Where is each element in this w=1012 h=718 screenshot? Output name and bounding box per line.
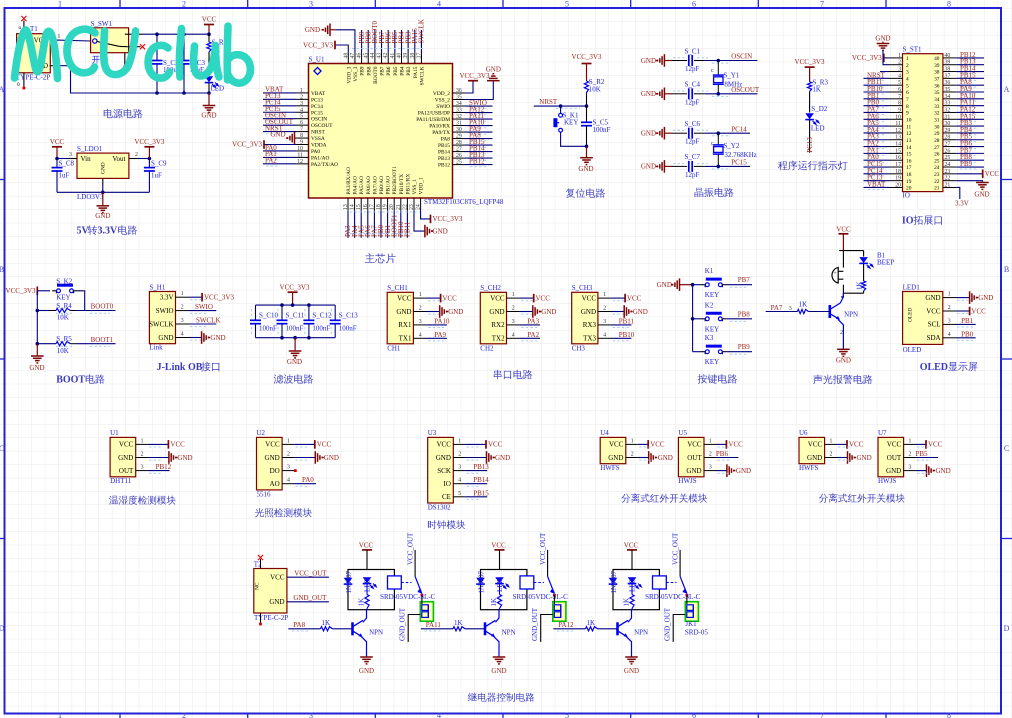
svg-text:NC: NC [255, 582, 261, 590]
svg-text:KEY: KEY [56, 293, 70, 301]
svg-text:VCC: VCC [442, 294, 457, 302]
svg-text:VCC: VCC [317, 441, 332, 449]
filter bottom rail [256, 337, 336, 339]
op-amp U1 main MCU body STM32F103C8T6 [309, 56, 504, 206]
LED of relay PA11 [495, 577, 509, 592]
svg-text:20: 20 [895, 182, 901, 188]
svg-text:GND: GND [641, 163, 656, 171]
svg-text:22: 22 [934, 179, 940, 185]
wire switch to connector PA12 [686, 595, 688, 604]
svg-text:1K: 1K [812, 86, 821, 94]
title 晶振电路 [695, 188, 734, 198]
svg-text:PB7: PB7 [738, 276, 751, 284]
S_CH1 pin stubs [413, 292, 444, 341]
svg-text:48: 48 [343, 53, 349, 59]
svg-text:PA7/AO: PA7/AO [372, 176, 378, 194]
connector U4 HWFS module [600, 429, 626, 472]
svg-text:25: 25 [456, 160, 462, 166]
svg-text:1: 1 [830, 438, 833, 444]
svg-text:A: A [1004, 85, 1010, 94]
key K3 [693, 334, 727, 366]
U1 left pin names [311, 91, 338, 168]
svg-text:J-Link OB: J-Link OB [157, 362, 203, 373]
svg-text:GND: GND [836, 357, 851, 365]
svg-text:26: 26 [945, 148, 951, 154]
svg-text:U3: U3 [428, 429, 437, 437]
wire S_C6 to PC14 [705, 125, 750, 135]
svg-text:KEY: KEY [705, 325, 719, 333]
svg-text:1K: 1K [587, 619, 596, 627]
resistor S_R5 10K [56, 335, 76, 355]
svg-text:NPN: NPN [844, 311, 858, 319]
power port VCC [202, 16, 217, 35]
svg-text:29: 29 [934, 131, 940, 137]
svg-text:PB1: PB1 [961, 317, 974, 325]
svg-text:30: 30 [934, 124, 940, 130]
power port VCC_3V3 of indicator [795, 58, 825, 82]
power port VCC of alarm [836, 226, 851, 251]
svg-text:IO: IO [902, 216, 914, 227]
net label PA9 at S_CH1 pin4 [427, 331, 447, 339]
svg-text:Link: Link [149, 344, 163, 352]
switch unconnected throw [129, 44, 146, 49]
net label PB5 at U7 [916, 450, 939, 460]
power port VCC at U4 [638, 440, 665, 449]
svg-text:OUT: OUT [887, 454, 902, 462]
ground GND of S_C6 [641, 127, 672, 140]
svg-text:OLED: OLED [908, 308, 914, 322]
svg-text:PB13: PB13 [438, 156, 450, 162]
svg-text:17: 17 [369, 204, 375, 210]
wire emitter to ground PA11 [493, 636, 499, 657]
svg-text:24: 24 [945, 162, 951, 168]
svg-text:40: 40 [945, 53, 951, 59]
ground GND of alarm [836, 349, 851, 364]
svg-text:SWCLK: SWCLK [196, 317, 221, 325]
svg-text:14: 14 [350, 204, 356, 210]
svg-text:S_K2: S_K2 [56, 277, 72, 285]
svg-text:HWFS: HWFS [799, 464, 819, 472]
relay enclosure PA12 [613, 570, 659, 610]
svg-text:22: 22 [945, 176, 951, 182]
svg-text:19: 19 [906, 179, 912, 185]
svg-text:35: 35 [945, 87, 951, 93]
svg-text:PB12: PB12 [156, 463, 172, 471]
wire S_C7 to PC15 [705, 159, 750, 169]
connector LED1 OLED display [903, 283, 943, 354]
svg-text:3: 3 [287, 465, 290, 471]
svg-text:GND: GND [641, 90, 656, 98]
net label PB1 at OLED pin3 [956, 317, 976, 325]
svg-text:SCK: SCK [437, 467, 451, 475]
title 主芯片 [365, 253, 396, 263]
power port VCC_3V3 of LDO [134, 138, 164, 159]
svg-text:SDA: SDA [927, 334, 941, 342]
svg-text:VCC: VCC [202, 16, 217, 24]
svg-text:12pF: 12pF [685, 171, 700, 179]
relay switch PA8 [401, 532, 423, 597]
capacitor S_C8 1uF [52, 159, 75, 193]
svg-text:S_C1: S_C1 [685, 47, 701, 55]
junction crystal Y2 top [717, 131, 721, 135]
svg-text:16: 16 [895, 155, 901, 161]
title 复位电路 [566, 188, 605, 198]
transistor NPN of relay PA11 [485, 620, 516, 637]
relay output connector PA8 [420, 602, 433, 622]
svg-text:5: 5 [565, 0, 569, 9]
svg-text:13: 13 [906, 138, 912, 144]
svg-text:27: 27 [934, 145, 940, 151]
svg-text:39: 39 [403, 53, 409, 59]
svg-text:4: 4 [287, 478, 290, 484]
svg-text:15: 15 [356, 204, 362, 210]
svg-text:GND: GND [736, 467, 751, 475]
svg-text:VDDA: VDDA [311, 143, 327, 149]
svg-text:S_CH2: S_CH2 [480, 284, 501, 292]
U1 left pin stubs and numbers [296, 88, 309, 165]
power port VCC of relay PA11 [491, 542, 506, 570]
wire emitter to ground PA8 [361, 636, 367, 657]
svg-text:U4: U4 [600, 429, 609, 437]
svg-text:4: 4 [898, 73, 901, 79]
svg-text:VCC: VCC [887, 441, 902, 449]
ground GND of relay PA11 [491, 657, 506, 675]
svg-text:VCC: VCC [650, 441, 665, 449]
svg-text:41: 41 [390, 53, 396, 59]
wire GND_OUT PA12 [664, 607, 686, 642]
net label PB13 at U3 [465, 463, 489, 473]
svg-text:34: 34 [934, 97, 940, 103]
svg-text:U6: U6 [799, 429, 808, 437]
net label PA11 base wire [421, 621, 453, 631]
junction R5 rail [36, 342, 40, 346]
svg-text:VCC_3V3: VCC_3V3 [303, 42, 333, 50]
connector U1 DHT11 module [110, 429, 136, 485]
svg-text:SRD-05: SRD-05 [685, 628, 708, 636]
svg-text:1: 1 [58, 34, 61, 40]
junction crystal Y2 bottom [717, 165, 721, 169]
diode 1N4007 PA8 [344, 570, 353, 593]
svg-text:8: 8 [906, 104, 909, 110]
wire emitter to ground PA12 [626, 636, 632, 657]
power port VCC_3V3 at U1 VDD_1 [421, 211, 463, 223]
svg-text:VSS_3: VSS_3 [353, 66, 359, 82]
svg-text:VCC: VCC [926, 307, 941, 315]
svg-text:8: 8 [300, 133, 303, 139]
svg-text:PB14: PB14 [438, 150, 450, 156]
wire collector to rail [840, 293, 843, 303]
svg-text:17: 17 [895, 162, 901, 168]
svg-text:OLED: OLED [920, 362, 948, 373]
svg-text:GND: GND [324, 454, 339, 462]
svg-text:K2: K2 [705, 301, 714, 309]
svg-text:4: 4 [419, 332, 422, 338]
svg-text:36: 36 [456, 88, 462, 94]
U1 top pin stubs and numbers [343, 53, 422, 64]
svg-text:1: 1 [603, 292, 606, 298]
svg-text:100nF: 100nF [312, 325, 330, 333]
svg-text:NPN: NPN [502, 629, 516, 637]
power port VCC of LDO [50, 138, 65, 159]
capacitor S_C7 12pF [672, 153, 708, 179]
wire LDO bottom rail [57, 191, 149, 193]
LDO GND pin1 stub [102, 178, 104, 185]
svg-text:VCC: VCC [836, 226, 851, 234]
svg-text:S_C11: S_C11 [286, 312, 305, 320]
svg-text:VCC_OUT: VCC_OUT [539, 532, 547, 565]
svg-text:20: 20 [906, 186, 912, 192]
svg-text:PA11: PA11 [426, 621, 442, 629]
svg-text:TX3: TX3 [583, 335, 596, 343]
ground GND of S_C4 [641, 88, 672, 101]
svg-text:35: 35 [934, 90, 940, 96]
ground GND at U6 [837, 451, 872, 464]
power port VCC at U3 [465, 440, 502, 449]
svg-text:S_C7: S_C7 [685, 153, 701, 161]
svg-text:GND: GND [581, 308, 596, 316]
junction VCC node [207, 32, 211, 36]
svg-text:1N4007: 1N4007 [345, 570, 353, 593]
LED S_D2 [805, 105, 827, 153]
LDO pin2 stub [129, 152, 138, 158]
svg-text:PB0/AO: PB0/AO [379, 176, 385, 195]
svg-text:1: 1 [58, 0, 62, 9]
svg-text:4: 4 [603, 332, 606, 338]
svg-text:VCC: VCC [928, 441, 943, 449]
connector U2 5516 module [257, 429, 283, 498]
svg-text:21: 21 [934, 186, 940, 192]
svg-text:GND: GND [641, 57, 656, 65]
svg-text:HWJS: HWJS [678, 477, 696, 485]
svg-text:PB15: PB15 [438, 143, 450, 149]
svg-text:3.3V: 3.3V [955, 200, 969, 208]
svg-text:GND: GND [495, 454, 510, 462]
svg-text:PC14: PC14 [311, 104, 323, 110]
svg-text:3: 3 [309, 711, 313, 718]
svg-text:31: 31 [934, 117, 940, 123]
unconnected pin at U2 [294, 469, 297, 472]
svg-text:GND: GND [269, 598, 284, 606]
ground at U1 VSS_3 [305, 24, 355, 53]
svg-text:2: 2 [141, 452, 144, 458]
svg-text:PB13: PB13 [473, 463, 489, 471]
net label PA3 at S_CH2 pin3 [520, 317, 540, 325]
power port VCC_3V3 at U1 VDD_3 [303, 41, 348, 53]
svg-text:VCC: VCC [582, 294, 597, 302]
svg-text:CH3: CH3 [572, 345, 586, 353]
net label GND_OUT at T2 [287, 594, 329, 602]
svg-text:S_CH3: S_CH3 [572, 284, 593, 292]
resistor S_R3 1K [808, 79, 829, 113]
OLED pin stubs [943, 292, 973, 341]
power port VCC at U1 [148, 440, 185, 449]
svg-text:GND: GND [158, 334, 173, 342]
svg-text:1: 1 [58, 711, 62, 718]
svg-text:13: 13 [895, 135, 901, 141]
svg-text:GND: GND [201, 112, 216, 120]
junction C2 top [155, 32, 159, 36]
connector S_ST1 IO header [903, 46, 943, 200]
svg-text:10: 10 [297, 146, 303, 152]
svg-text:32: 32 [934, 111, 940, 117]
svg-text:3: 3 [906, 70, 909, 76]
svg-text:S_C13: S_C13 [339, 312, 359, 320]
svg-text:9: 9 [906, 111, 909, 117]
junction NRST node [585, 104, 589, 108]
svg-text:18: 18 [376, 204, 382, 210]
svg-text:GND: GND [658, 454, 673, 462]
transistor NPN of relay PA8 [353, 620, 384, 637]
buzzer B1 BEEP [832, 251, 894, 283]
svg-text:3: 3 [300, 101, 303, 107]
capacitor S_C3 10uF [179, 34, 206, 93]
svg-text:KEY: KEY [705, 358, 719, 366]
svg-text:8MHz: 8MHz [724, 80, 742, 88]
svg-text:RX3: RX3 [583, 321, 597, 329]
svg-text:VCC: VCC [536, 294, 551, 302]
svg-text:100nF: 100nF [259, 325, 277, 333]
svg-text:GND: GND [578, 165, 593, 173]
svg-text:PB12: PB12 [469, 157, 485, 165]
svg-text:GND: GND [936, 467, 951, 475]
svg-text:VCC: VCC [849, 441, 864, 449]
svg-text:3: 3 [709, 465, 712, 471]
svg-text:CE: CE [442, 493, 451, 501]
svg-text:12pF: 12pF [685, 98, 700, 106]
svg-text:PC15: PC15 [731, 159, 747, 167]
svg-text:U5: U5 [678, 429, 687, 437]
svg-text:4: 4 [906, 77, 909, 83]
svg-text:32: 32 [456, 114, 462, 120]
svg-text:GND: GND [29, 364, 44, 372]
svg-text:23: 23 [945, 169, 951, 175]
svg-text:C: C [0, 444, 4, 453]
svg-text:GND: GND [491, 667, 506, 675]
relay output connector PA11 [553, 602, 566, 622]
svg-text:16: 16 [363, 204, 369, 210]
svg-text:6: 6 [898, 87, 901, 93]
svg-text:14: 14 [906, 145, 912, 151]
svg-text:GND: GND [624, 667, 639, 675]
svg-text:32.768KHz: 32.768KHz [724, 151, 756, 159]
wire T1 GND to bottom rail [57, 66, 157, 93]
net label PB14 at U3 [465, 476, 489, 486]
svg-text:45: 45 [363, 53, 369, 59]
svg-text:SWIO: SWIO [436, 104, 450, 110]
resistor 1K base [797, 301, 829, 314]
relay switch PA11 [534, 532, 556, 597]
svg-text:11: 11 [297, 152, 303, 158]
svg-text:GND: GND [270, 131, 285, 139]
IO header right stubs [943, 53, 956, 189]
svg-text:PB11: PB11 [619, 317, 635, 325]
svg-text:GND: GND [359, 667, 374, 675]
zone numbers bottom [58, 711, 951, 718]
title BOOT电路 [56, 374, 104, 385]
svg-text:PC15: PC15 [311, 110, 323, 116]
relay enclosure PA11 [481, 570, 527, 610]
svg-text:GND_OUT: GND_OUT [399, 607, 407, 641]
svg-text:C: C [1004, 444, 1009, 453]
svg-text:PA12: PA12 [558, 621, 574, 629]
wire key bottom to rail [561, 132, 587, 146]
svg-text:GND: GND [857, 454, 872, 462]
wire emitter to ground [838, 319, 843, 349]
ground GND of relay PA12 [624, 657, 639, 675]
relay output connector PA12 [685, 602, 698, 622]
svg-text:33: 33 [945, 101, 951, 107]
key K2 [693, 301, 727, 333]
net label PA7 base wire [766, 304, 798, 312]
ground GND at U4 [638, 451, 673, 464]
svg-text:1: 1 [181, 291, 184, 297]
svg-text:OLED: OLED [903, 346, 922, 354]
svg-text:34: 34 [945, 94, 951, 100]
svg-text:1K: 1K [322, 619, 331, 627]
svg-text:16: 16 [906, 158, 912, 164]
power port VCC at IO pin23 [956, 170, 999, 179]
svg-text:PA9: PA9 [434, 331, 446, 339]
relay coil PA12 [653, 576, 667, 589]
svg-text:PB5: PB5 [916, 450, 929, 458]
svg-text:46: 46 [357, 53, 363, 59]
key S_K1 [555, 112, 579, 133]
svg-text:12: 12 [297, 159, 303, 165]
svg-text:47: 47 [350, 53, 356, 59]
svg-text:3: 3 [309, 0, 313, 9]
resistor S_R1 [207, 34, 228, 75]
svg-text:PA12/USB/DP: PA12/USB/DP [418, 111, 450, 117]
IO header right net labels [956, 51, 984, 169]
ground GND at U2 [294, 451, 339, 464]
svg-text:39: 39 [945, 60, 951, 66]
LED of relay PA8 [363, 577, 377, 592]
svg-text:PB7: PB7 [380, 66, 386, 76]
svg-text:GND: GND [486, 66, 501, 74]
svg-text:GND: GND [875, 34, 890, 42]
svg-text:37: 37 [945, 73, 951, 79]
svg-text:11: 11 [906, 124, 911, 130]
connector T1 TYPE-C-2P [16, 25, 50, 82]
title 温湿度检测模块 [109, 495, 176, 504]
svg-text:28: 28 [945, 135, 951, 141]
svg-text:10K: 10K [57, 347, 69, 355]
svg-text:PA7: PA7 [771, 304, 783, 312]
svg-text:1N4007: 1N4007 [477, 570, 485, 593]
connector S_CH3 [572, 284, 598, 352]
svg-text:OUT: OUT [119, 467, 134, 475]
svg-text:OUT: OUT [687, 454, 702, 462]
svg-text:1: 1 [948, 292, 951, 298]
svg-text:VCC: VCC [491, 542, 506, 550]
capacitor S_C5 100nF [581, 106, 611, 146]
junction LDO GND [101, 191, 105, 195]
svg-text:VCC: VCC [359, 542, 374, 550]
svg-text:7: 7 [820, 0, 824, 9]
key S_K2 [52, 277, 78, 301]
svg-text:24: 24 [416, 204, 422, 210]
svg-text:D: D [0, 624, 5, 633]
power port VCC at U7 [916, 440, 943, 449]
svg-text:1: 1 [631, 438, 634, 444]
svg-text:2: 2 [840, 330, 843, 336]
connector T2 TYPE-C-2P output [254, 560, 289, 622]
power port VCC at U5 [716, 440, 743, 449]
svg-text:PC13: PC13 [311, 97, 323, 103]
svg-text:Vin: Vin [81, 155, 92, 163]
svg-text:1: 1 [906, 56, 909, 62]
svg-text:VCC_3V3: VCC_3V3 [795, 58, 825, 66]
